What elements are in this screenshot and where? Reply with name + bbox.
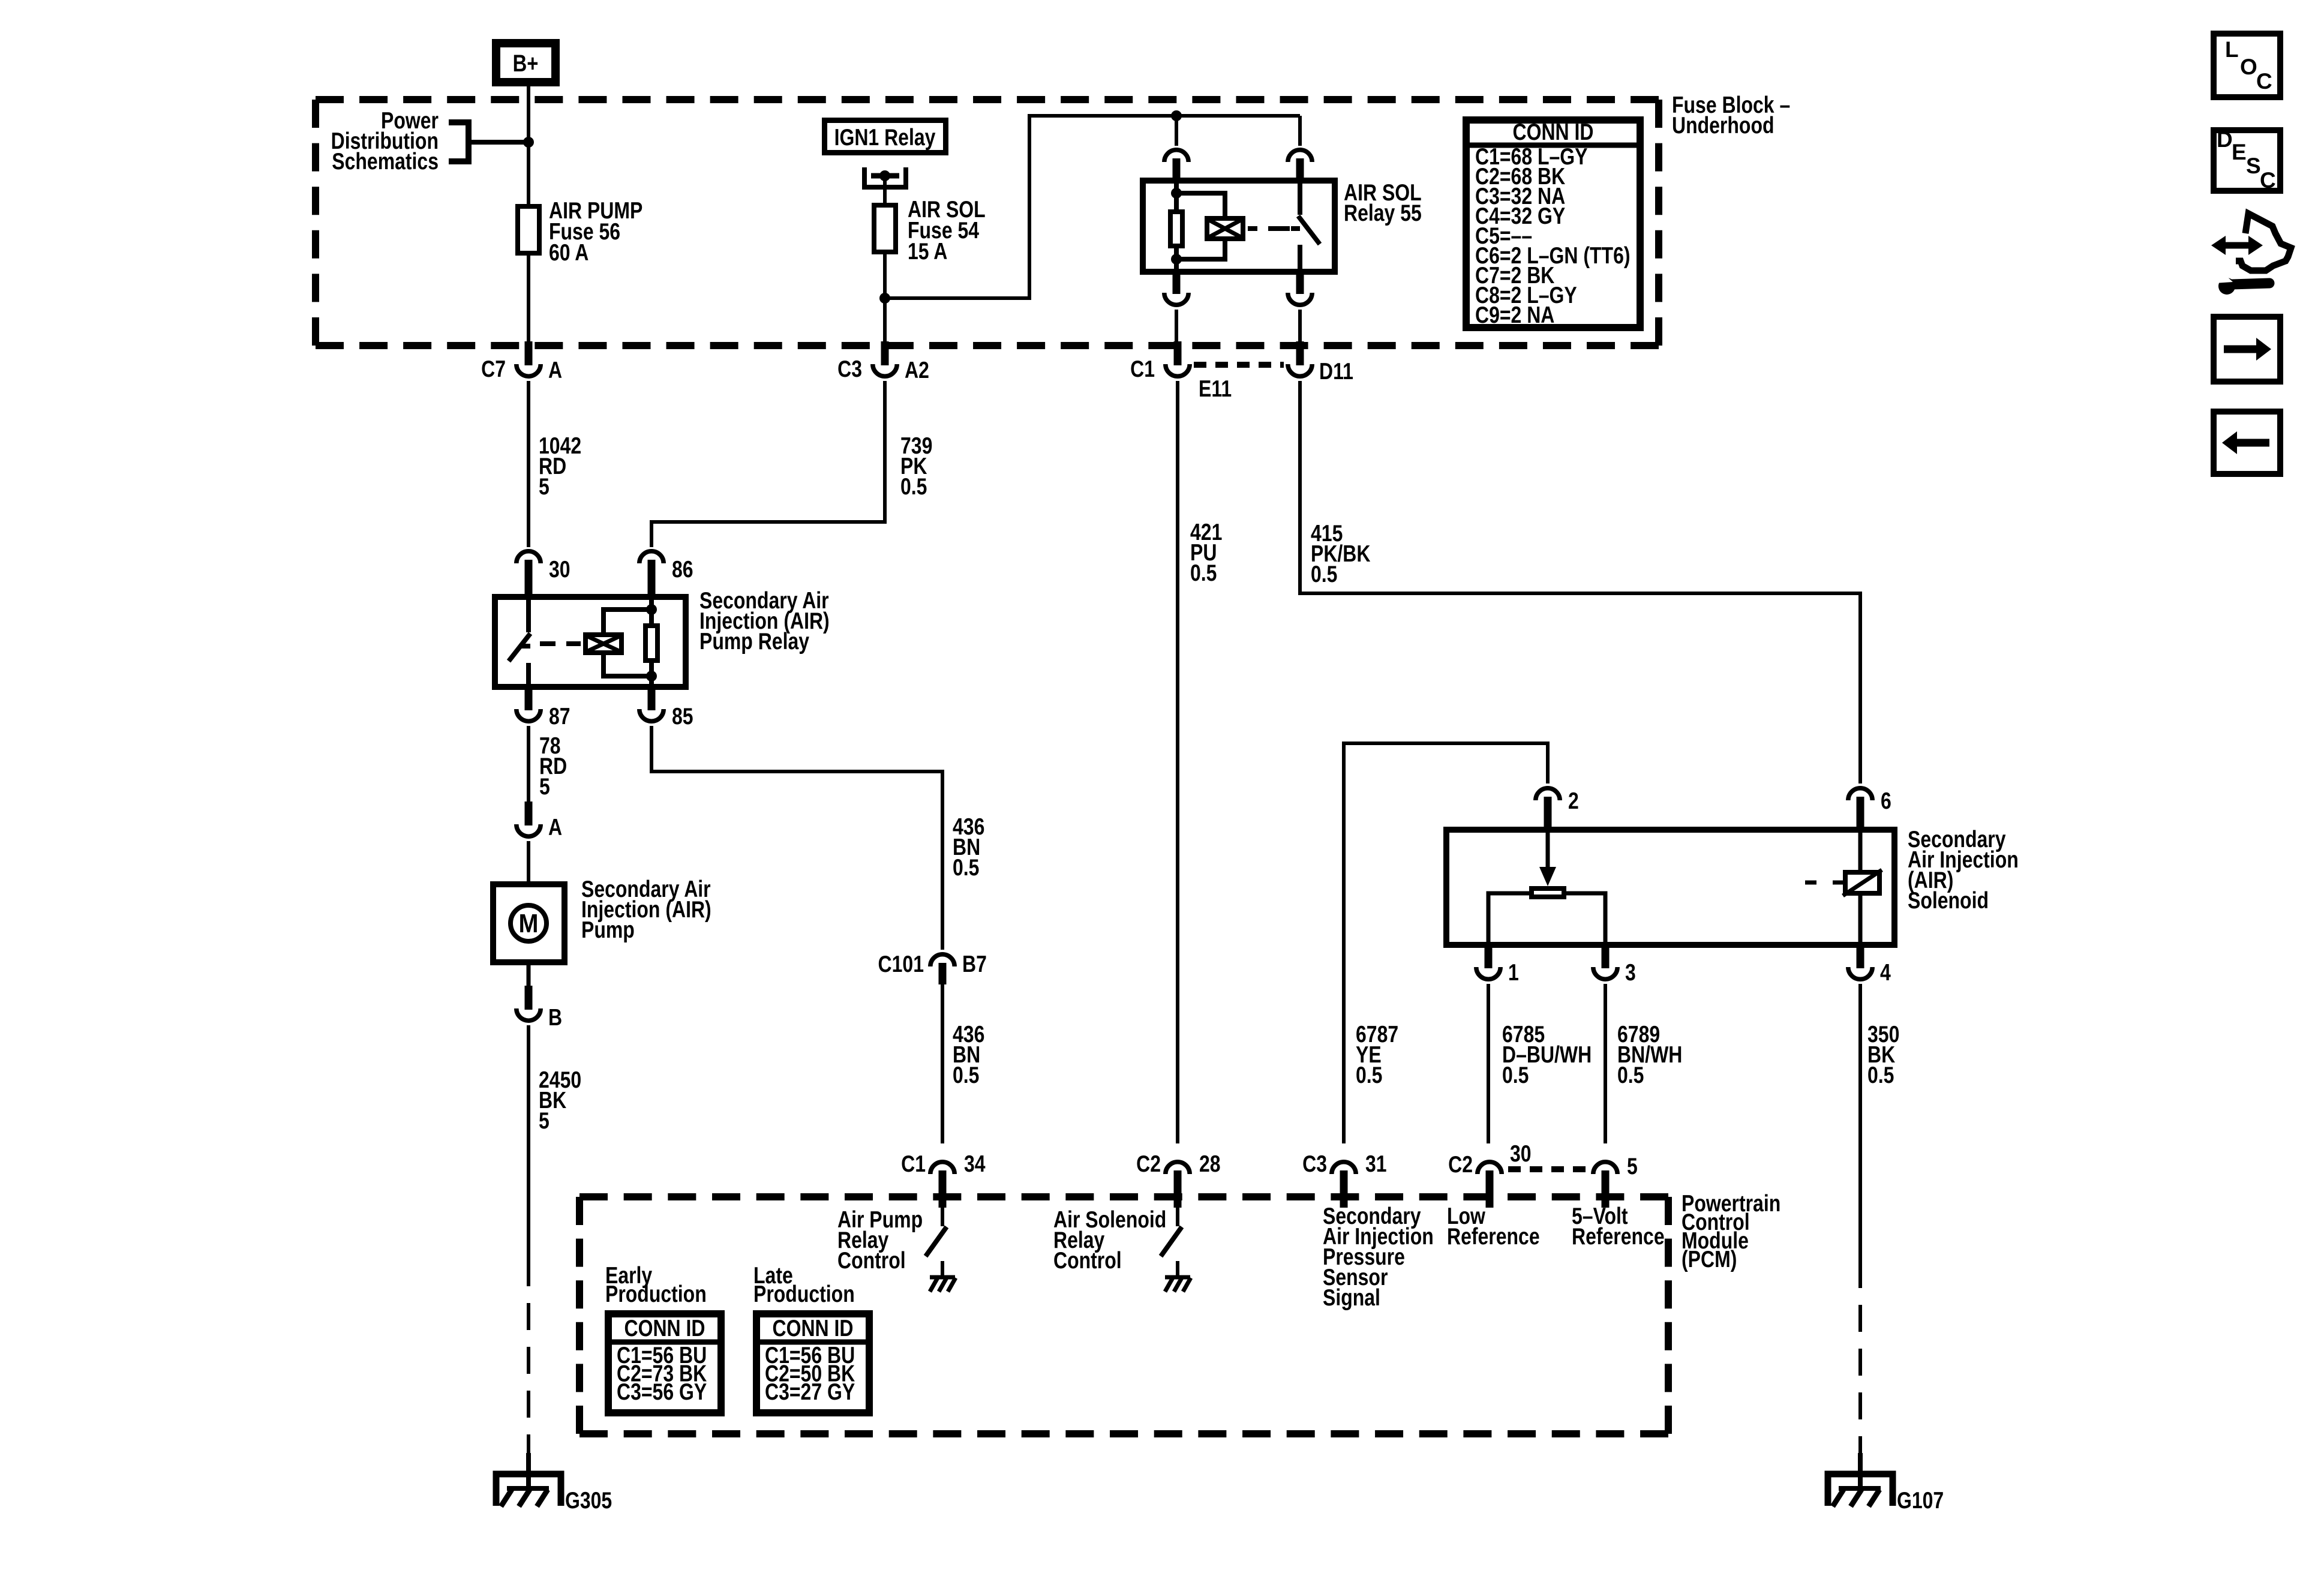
svg-text:Production: Production (605, 1281, 707, 1307)
svg-text:L: L (2225, 37, 2239, 62)
svg-text:C2: C2 (1448, 1151, 1473, 1178)
svg-text:5: 5 (539, 1107, 550, 1134)
svg-text:A2: A2 (905, 357, 929, 383)
svg-text:0.5: 0.5 (900, 473, 927, 500)
svg-text:4: 4 (1880, 959, 1891, 986)
svg-text:B7: B7 (962, 951, 987, 977)
svg-text:B+: B+ (513, 50, 539, 77)
svg-text:6: 6 (1881, 788, 1891, 814)
svg-text:87: 87 (549, 703, 571, 730)
svg-text:CONN ID: CONN ID (773, 1315, 854, 1341)
svg-text:86: 86 (672, 556, 693, 583)
svg-text:O: O (2240, 55, 2257, 79)
svg-text:C3=27 GY: C3=27 GY (765, 1379, 855, 1405)
svg-text:(PCM): (PCM) (1682, 1246, 1737, 1272)
svg-text:S: S (2246, 154, 2261, 178)
svg-text:Control: Control (837, 1247, 906, 1274)
svg-text:CONN ID: CONN ID (624, 1315, 705, 1341)
svg-text:34: 34 (964, 1151, 986, 1177)
svg-text:Schematics: Schematics (332, 148, 439, 175)
svg-text:C1: C1 (1130, 356, 1155, 382)
svg-text:G305: G305 (565, 1487, 612, 1514)
svg-text:0.5: 0.5 (1356, 1062, 1382, 1088)
svg-text:IGN1 Relay: IGN1 Relay (834, 124, 936, 151)
svg-text:C: C (2256, 69, 2272, 94)
svg-text:28: 28 (1199, 1151, 1221, 1177)
svg-text:30: 30 (1510, 1140, 1532, 1167)
svg-text:30: 30 (549, 556, 571, 583)
svg-text:C2: C2 (1136, 1151, 1161, 1177)
svg-text:Underhood: Underhood (1672, 112, 1774, 139)
svg-text:1: 1 (1508, 959, 1519, 986)
svg-text:E11: E11 (1199, 376, 1232, 402)
svg-text:31: 31 (1365, 1151, 1387, 1177)
svg-text:5: 5 (539, 773, 550, 800)
svg-text:M: M (519, 908, 539, 938)
svg-text:C9=2 NA: C9=2 NA (1475, 302, 1554, 328)
svg-text:Reference: Reference (1572, 1223, 1665, 1250)
svg-text:C: C (2260, 168, 2276, 193)
svg-text:C101: C101 (878, 951, 924, 977)
svg-text:85: 85 (672, 703, 693, 730)
svg-text:A: A (548, 357, 562, 383)
svg-text:C3: C3 (1302, 1151, 1327, 1177)
svg-text:Signal: Signal (1323, 1284, 1380, 1311)
svg-text:0.5: 0.5 (953, 1062, 979, 1088)
svg-text:D: D (2217, 127, 2233, 152)
svg-text:0.5: 0.5 (1502, 1062, 1529, 1088)
svg-text:D11: D11 (1319, 358, 1353, 385)
svg-text:CONN ID: CONN ID (1513, 119, 1594, 145)
svg-text:0.5: 0.5 (1617, 1062, 1644, 1088)
svg-text:E: E (2232, 140, 2247, 164)
svg-text:G107: G107 (1897, 1487, 1944, 1514)
svg-text:2: 2 (1568, 788, 1579, 814)
svg-text:C1: C1 (901, 1151, 926, 1177)
svg-text:Reference: Reference (1447, 1223, 1540, 1250)
svg-text:0.5: 0.5 (953, 854, 979, 881)
svg-text:Solenoid: Solenoid (1908, 887, 1989, 914)
svg-text:Pump Relay: Pump Relay (699, 628, 809, 655)
svg-text:Relay 55: Relay 55 (1344, 200, 1422, 226)
svg-text:0.5: 0.5 (1311, 561, 1337, 587)
svg-text:Pump: Pump (581, 917, 635, 943)
svg-text:0.5: 0.5 (1190, 560, 1217, 586)
svg-text:C3=56 GY: C3=56 GY (617, 1379, 707, 1405)
svg-text:0.5: 0.5 (1867, 1062, 1894, 1088)
svg-text:Control: Control (1053, 1247, 1122, 1274)
svg-text:5: 5 (539, 473, 550, 500)
svg-text:5: 5 (1627, 1153, 1638, 1179)
svg-text:3: 3 (1625, 959, 1636, 986)
svg-text:C7: C7 (481, 356, 506, 382)
svg-text:60 A: 60 A (549, 239, 588, 266)
svg-text:Production: Production (753, 1281, 855, 1307)
svg-text:A: A (548, 814, 562, 840)
svg-text:B: B (548, 1004, 562, 1031)
svg-text:15 A: 15 A (908, 238, 947, 265)
svg-text:C3: C3 (837, 356, 862, 382)
